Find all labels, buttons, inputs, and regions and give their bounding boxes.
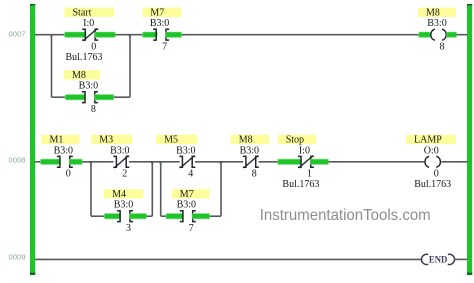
- svg-text:M4: M4: [112, 189, 126, 200]
- svg-text:B3:0: B3:0: [54, 145, 73, 156]
- svg-text:M5: M5: [164, 135, 178, 146]
- svg-text:8: 8: [91, 104, 96, 115]
- svg-text:M7: M7: [150, 7, 164, 18]
- contact M8 (XIO, N.C.) B3:0/8 series: [231, 135, 269, 180]
- junction rung 0007 branch left: [50, 34, 52, 36]
- branch2 energized segment left of M7: [166, 214, 183, 219]
- svg-text:M8: M8: [239, 135, 253, 146]
- wire rung 0008: rail stub: [35, 161, 41, 163]
- branch 0007 energized segment right of M8 contact: [95, 95, 114, 100]
- branch1 bottom wire right segment: [147, 215, 153, 217]
- contact M5 (XIO, N.C.) B3:0/4: [156, 135, 197, 180]
- branch2 left vertical wire: [160, 162, 162, 216]
- wire rung 0008: coil LAMP to right rail: [442, 161, 468, 163]
- wire rung 0007: Start to M7: [115, 34, 144, 36]
- svg-text:7: 7: [162, 42, 167, 53]
- junction rung 0007 branch right: [129, 34, 131, 36]
- right power rail: [467, 4, 472, 275]
- svg-text:Bul.1763: Bul.1763: [66, 52, 103, 63]
- wire rung 0008 energized segment right of Stop: [311, 159, 329, 164]
- wire rung 0008 energized segment left of Stop: [278, 159, 302, 164]
- svg-text:3: 3: [126, 223, 131, 234]
- svg-text:0007: 0007: [9, 29, 26, 38]
- svg-text:I:0: I:0: [299, 145, 310, 156]
- svg-text:M1: M1: [50, 135, 64, 146]
- wire rung 0007 energized segment left of Start: [65, 32, 86, 37]
- svg-text:8: 8: [252, 169, 257, 180]
- svg-text:M8: M8: [426, 7, 440, 18]
- svg-text:B3:0: B3:0: [150, 18, 169, 29]
- branch 0007 bottom wire left segment: [52, 96, 66, 98]
- svg-text:B3:0: B3:0: [79, 81, 98, 92]
- svg-text:LAMP: LAMP: [414, 135, 442, 146]
- wire rung 0008: M1 to M3: [82, 161, 113, 163]
- wire rung 0007 energized segment left of M7: [143, 32, 158, 37]
- wire rung 0009: rail to END coil: [35, 258, 422, 260]
- svg-text:B3:0: B3:0: [177, 200, 196, 211]
- svg-text:0009: 0009: [9, 252, 26, 261]
- wire rung 0007: rail to Start contact: [35, 34, 65, 36]
- coil M8 (OTE) B3:0/8: [418, 7, 456, 52]
- branch 0007 left vertical wire: [51, 35, 53, 97]
- branch2 right vertical wire: [220, 162, 222, 216]
- svg-text:B3:0: B3:0: [240, 145, 259, 156]
- junction rung 0008 branch2 right: [220, 161, 222, 163]
- svg-text:O:0: O:0: [424, 145, 439, 156]
- svg-text:M7: M7: [180, 189, 194, 200]
- wire rung 0007: coil M8 to right rail: [457, 34, 468, 36]
- wire rung 0007 energized segment right of Start: [95, 32, 115, 37]
- contact M4 (XIC, N.O.) B3:0/3 on branch1: [104, 189, 143, 234]
- branch 0007 energized segment left of M8 contact: [65, 95, 85, 100]
- svg-text:Bul.1763: Bul.1763: [282, 179, 319, 190]
- svg-text:2: 2: [122, 169, 127, 180]
- branch2 bottom wire left segment: [161, 215, 167, 217]
- svg-text:I:0: I:0: [83, 18, 94, 29]
- branch1 bottom wire left segment: [91, 215, 105, 217]
- svg-text:M8: M8: [72, 70, 86, 81]
- contact M1 (XIC, N.O.) B3:0/0: [42, 135, 80, 180]
- branch 0007 right vertical wire: [129, 35, 131, 97]
- svg-text:Bul.1763: Bul.1763: [414, 179, 451, 190]
- wire rung 0009: END coil to right rail: [455, 258, 468, 260]
- junction rung 0008 branch2 left: [159, 161, 161, 163]
- branch1 energized segment right of M4: [130, 214, 147, 219]
- branch 0007 bottom wire right segment: [114, 96, 130, 98]
- contact Stop (XIO, N.C.) I:0/1: [278, 135, 320, 190]
- svg-text:7: 7: [189, 223, 194, 234]
- svg-text:4: 4: [188, 169, 193, 180]
- junction rung 0008 branch1 left: [90, 161, 92, 163]
- contact M8 (XIC, N.O.) B3:0/8 on branch: [64, 70, 100, 115]
- wire rung 0008 energized segment right of M1: [69, 159, 82, 164]
- wire rung 0008 energized segment left of M1: [41, 159, 61, 164]
- branch1 right vertical wire: [151, 162, 153, 216]
- svg-text:M3: M3: [99, 135, 113, 146]
- wire rung 0008: Stop to coil LAMP: [329, 161, 425, 163]
- junction rung 0008 branch1 right: [151, 161, 153, 163]
- wire rung 0008: M3 to M5: [129, 161, 180, 163]
- branch2 energized segment right of M7: [192, 214, 209, 219]
- wire rung 0007 energized segment right of coil M8: [447, 32, 457, 37]
- svg-text:8: 8: [440, 42, 445, 53]
- branch2 bottom wire right segment: [210, 215, 221, 217]
- wire rung 0007: M7 to output coil M8: [182, 34, 420, 36]
- contact Start (XIO, N.C.) I:0/0: [65, 7, 115, 62]
- svg-text:B3:0: B3:0: [114, 200, 133, 211]
- wire rung 0007 energized segment left of coil M8: [419, 32, 430, 37]
- svg-text:B3:0: B3:0: [110, 145, 129, 156]
- wire rung 0007 energized segment right of M7: [166, 32, 182, 37]
- contact M7 (XIC, N.O.) B3:0/7: [142, 7, 181, 52]
- svg-text:B3:0: B3:0: [427, 18, 446, 29]
- coil LAMP (OTE) O:0/0: [406, 135, 456, 190]
- svg-text:0: 0: [66, 169, 71, 180]
- contact M3 (XIO, N.C.) B3:0/2: [91, 135, 132, 180]
- branch1 energized segment left of M4: [104, 214, 120, 219]
- coil END (program end): [421, 254, 454, 265]
- svg-text:Start: Start: [73, 7, 92, 18]
- left power rail: [30, 4, 35, 275]
- svg-text:InstrumentationTools.com: InstrumentationTools.com: [260, 207, 431, 224]
- svg-text:0008: 0008: [9, 156, 26, 165]
- wire rung 0008: M8 to Stop: [259, 161, 279, 163]
- svg-text:Stop: Stop: [286, 135, 304, 146]
- svg-text:B3:0: B3:0: [176, 145, 195, 156]
- wire rung 0008: M5 to M8: [195, 161, 243, 163]
- branch1 left vertical wire: [90, 162, 92, 216]
- contact M7 (XIC, N.O.) B3:0/7 on branch2: [172, 189, 210, 234]
- svg-text:END: END: [429, 255, 447, 266]
